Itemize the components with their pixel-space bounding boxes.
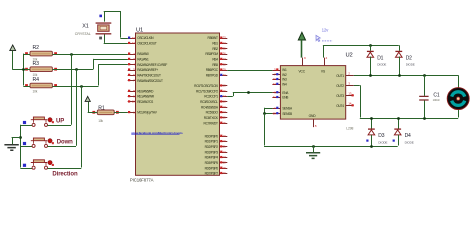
svg-text:R1: R1 [98,105,105,111]
svg-text:OUT1: OUT1 [336,74,344,78]
svg-text:29: 29 [223,166,226,170]
svg-text:D1: D1 [377,56,383,62]
svg-text:RE0/AN5/RD: RE0/AN5/RD [137,89,154,93]
svg-text:DIODE: DIODE [378,140,387,144]
svg-text:10: 10 [132,100,136,104]
svg-text:X1: X1 [82,23,89,29]
svg-text:5: 5 [274,68,276,72]
svg-text:C1: C1 [433,92,439,98]
svg-text:GND: GND [309,114,317,118]
svg-text:IN2: IN2 [282,73,287,77]
svg-text:16: 16 [223,89,226,93]
svg-text:RB1: RB1 [212,42,218,46]
svg-text:RD4/PSP4: RD4/PSP4 [205,156,219,160]
svg-text:OUT2: OUT2 [336,84,344,88]
svg-text:RC5/SDO: RC5/SDO [206,111,219,115]
svg-text:OSC1/CLKIN: OSC1/CLKIN [137,36,154,40]
svg-text:ENB: ENB [282,96,288,100]
svg-text:2: 2 [348,72,350,76]
svg-text:OUT3: OUT3 [336,94,344,98]
svg-text:D4: D4 [405,133,411,139]
svg-text:36: 36 [223,52,226,56]
svg-text:CRYSTAL: CRYSTAL [75,32,91,36]
svg-text:8: 8 [315,124,317,128]
svg-text:R4: R4 [33,77,40,83]
svg-text:RB5: RB5 [212,63,218,67]
svg-text:RA2/AN2/VREF-/CVREF: RA2/AN2/VREF-/CVREF [137,63,167,67]
svg-text:RB3/PGM: RB3/PGM [205,52,218,56]
svg-text:13: 13 [348,92,352,96]
svg-text:www.facebook.com/Electronics.l: www.facebook.com/Electronics.lovers [130,131,183,135]
svg-text:U2: U2 [346,53,353,59]
svg-text:OUT4: OUT4 [336,104,344,108]
svg-text:13: 13 [132,36,136,40]
svg-text:10k: 10k [33,73,38,77]
svg-text:RD1/PSP1: RD1/PSP1 [205,140,219,144]
svg-text:RC0/T1OSO/T1CKI: RC0/T1OSO/T1CKI [194,84,218,88]
svg-text:RE1/AN6/WR: RE1/AN6/WR [137,95,154,99]
svg-text:RD5/PSP5: RD5/PSP5 [205,161,219,165]
svg-text:Direction: Direction [52,172,78,178]
svg-text:RA0/AN0: RA0/AN0 [137,52,149,56]
svg-text:RD7/PSP7: RD7/PSP7 [205,172,219,176]
svg-text:RB7/PGD: RB7/PGD [206,73,219,77]
svg-text:DIODE: DIODE [406,63,415,67]
svg-text:PIC16F877A: PIC16F877A [130,178,154,183]
svg-text:10k: 10k [98,119,103,123]
svg-text:IN4: IN4 [282,82,287,86]
svg-text:RA5/AN4/SS/C2OUT: RA5/AN4/SS/C2OUT [137,79,163,83]
svg-text:RC1/T1OSI/CCP2: RC1/T1OSI/CCP2 [196,89,218,93]
svg-text:R2: R2 [33,45,40,51]
svg-text:DIODE: DIODE [377,63,386,67]
svg-text:RC3/SCK/SCL: RC3/SCK/SCL [200,100,218,104]
svg-text:IN1: IN1 [282,68,287,72]
svg-text:RD6/PSP6: RD6/PSP6 [205,166,219,170]
svg-text:10: 10 [273,77,277,81]
svg-text:RC2/CCP1: RC2/CCP1 [204,95,218,99]
svg-text:4: 4 [326,56,328,60]
svg-text:IN3: IN3 [282,78,287,82]
svg-text:39: 39 [223,68,226,72]
svg-text:3: 3 [348,82,350,86]
svg-text:RB0/INT: RB0/INT [208,36,218,40]
svg-text:L298: L298 [346,126,353,130]
svg-text:5: 5 [133,68,135,72]
svg-text:OSC2/CLKOUT: OSC2/CLKOUT [137,42,157,46]
svg-text:SENSA: SENSA [282,106,293,110]
svg-text:RD0/PSP0: RD0/PSP0 [205,134,219,138]
svg-text:12v: 12v [322,28,330,33]
svg-text:40: 40 [223,73,226,77]
svg-text:Down: Down [57,139,73,145]
svg-text:23: 23 [223,105,226,109]
svg-text:19: 19 [223,134,226,138]
svg-text:10k: 10k [33,89,38,93]
svg-text:RA4/T0CKI/C1OUT: RA4/T0CKI/C1OUT [137,73,161,77]
svg-text:VCC: VCC [299,69,306,73]
svg-text:RB4: RB4 [212,57,218,61]
svg-text:RE2/AN7/CS: RE2/AN7/CS [137,100,153,104]
svg-text:MCLR/Vpp/THV: MCLR/Vpp/THV [137,111,157,115]
svg-text:U1: U1 [136,28,143,34]
svg-text:UP: UP [56,119,64,125]
svg-text:R3: R3 [33,61,40,67]
svg-text:RB6/PGC: RB6/PGC [206,68,219,72]
svg-text:37: 37 [223,57,226,61]
svg-text:RC4/SDI/SDA: RC4/SDI/SDA [201,105,219,109]
svg-text:33: 33 [223,36,226,40]
svg-text:RA1/AN1: RA1/AN1 [137,57,149,61]
svg-text:26: 26 [223,121,226,125]
svg-text:9: 9 [304,56,306,60]
svg-text:RC7/RX/DT: RC7/RX/DT [204,121,218,125]
svg-text:DIODE: DIODE [405,140,414,144]
svg-text:2: 2 [133,52,135,56]
svg-text:D2: D2 [406,56,412,62]
svg-text:15: 15 [273,111,277,115]
svg-text:12: 12 [273,82,277,86]
svg-text:RD3/PSP3: RD3/PSP3 [205,150,219,154]
svg-text:RD2/PSP2: RD2/PSP2 [205,145,219,149]
svg-text:11: 11 [273,95,276,99]
svg-text:14: 14 [132,41,136,45]
svg-text:RB2: RB2 [212,47,218,51]
svg-text:RA3/AN3/VREF+: RA3/AN3/VREF+ [137,68,158,72]
svg-text:22: 22 [223,150,226,154]
svg-text:RC6/TX/CK: RC6/TX/CK [204,116,219,120]
svg-text:100nF: 100nF [433,98,441,102]
svg-text:D3: D3 [378,133,384,139]
svg-text:14: 14 [348,102,352,106]
svg-text:SENSB: SENSB [282,112,292,116]
